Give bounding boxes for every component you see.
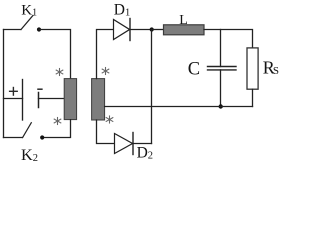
wire primary bottom to K2 line <box>42 120 70 138</box>
wire left rail <box>3 30 5 138</box>
wire top-left horizontal from left rail to switch K1 contact <box>4 29 21 31</box>
transformer primary winding (left bar) <box>64 79 76 120</box>
switch K2 blade <box>23 123 32 138</box>
polarity asterisk bottom-right of secondary <box>106 116 113 123</box>
wire Rs bottom to rail <box>252 89 254 106</box>
wire junction vertical (D1 to D2 cathode) <box>151 30 153 144</box>
wire D2 cathode to junction vertical <box>133 143 152 145</box>
transformer secondary winding (right bar) <box>92 79 105 120</box>
resistor RS <box>247 48 258 89</box>
wire capacitor branch bottom <box>220 70 222 107</box>
wire battery branch left segment <box>4 98 23 100</box>
svg-text:C: C <box>188 60 200 80</box>
inductor L <box>164 25 205 35</box>
label + (battery polarity) <box>10 88 18 96</box>
battery negative plate (short) <box>38 93 40 108</box>
label - (battery polarity) <box>38 88 42 90</box>
node junction dot at K2 <box>40 135 44 139</box>
polarity asterisk top-right of secondary <box>102 68 109 75</box>
capacitor C plates <box>208 66 237 68</box>
switch K1 blade <box>21 15 33 29</box>
wire bottom rail from secondary centre tap to Rs <box>105 106 253 108</box>
svg-text:K1: K1 <box>21 2 37 18</box>
wire battery to primary centre tap <box>39 98 65 100</box>
diode D1 <box>114 20 130 40</box>
node junction dot D1/D2 cathodes <box>150 27 154 31</box>
polarity asterisk bottom-left of primary <box>54 118 61 125</box>
wire bottom-left horizontal from rail to switch K2 contact <box>4 137 23 139</box>
svg-text:RS: RS <box>263 57 279 77</box>
wire capacitor branch top <box>220 30 222 67</box>
svg-text:K2: K2 <box>21 145 38 163</box>
node junction dot at C bottom <box>219 104 223 108</box>
node junction dot at K1 <box>37 27 41 31</box>
polarity asterisk top-left of primary <box>56 69 63 76</box>
svg-text:D2: D2 <box>137 144 153 161</box>
wire secondary bottom to D2 anode <box>97 120 115 144</box>
wire junction to inductor L <box>152 29 164 31</box>
wire from K1 dot to primary top corner <box>39 30 71 79</box>
svg-text:D1: D1 <box>114 1 130 18</box>
wire secondary top to D1 anode <box>97 30 114 79</box>
battery positive plate (long) <box>22 80 24 121</box>
wire D1 cathode to junction <box>130 29 152 31</box>
diode D2 <box>115 134 133 154</box>
wire L to top-right corner and down to Rs <box>204 30 253 48</box>
